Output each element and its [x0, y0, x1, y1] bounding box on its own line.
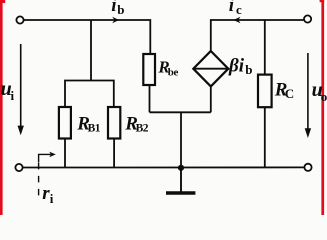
wire: R_B2 bottom lead — [113, 139, 115, 168]
r_i arrow (bent, pointing right) — [39, 152, 56, 163]
ground — [166, 168, 195, 193]
node: junction dot — [178, 165, 184, 171]
svg-text:βi: βi — [228, 55, 245, 76]
u_o arrow (down) — [305, 53, 311, 138]
wire: R_C top lead — [264, 20, 266, 75]
u_i arrow (down) — [18, 44, 24, 135]
wire: drop from emitter connector to ground node — [180, 112, 182, 167]
wire: bottom rail — [23, 166, 305, 168]
terminal: top-right — [304, 15, 311, 22]
wire: bracket over R_B1 / R_B2 — [65, 81, 114, 108]
wire: diamond bottom lead — [210, 86, 212, 112]
svg-text:b: b — [245, 62, 252, 77]
wire: R_B1 bottom lead — [64, 139, 66, 168]
svg-text:B1: B1 — [88, 123, 101, 135]
dependent current source βi_b (diamond) — [193, 51, 228, 86]
svg-text:be: be — [168, 66, 179, 78]
wire: junction drop from top rail to base bracket — [90, 20, 92, 81]
svg-text:c: c — [236, 2, 242, 17]
terminal: bottom-left — [15, 164, 22, 171]
svg-text:i: i — [50, 191, 54, 206]
r_i dashed line — [38, 163, 40, 200]
wire: i_b arrowhead on top-left rail — [112, 17, 119, 24]
svg-text:i: i — [11, 88, 15, 103]
resistor R_B1 — [59, 107, 71, 139]
red scan border right — [320, 0, 325, 215]
svg-text:B2: B2 — [136, 123, 149, 135]
red scan border left — [0, 0, 5, 215]
resistor R_be — [143, 54, 155, 85]
svg-text:C: C — [285, 86, 294, 101]
svg-text:b: b — [117, 2, 124, 17]
wire: emitter connector (R_be bottom to source bottom) — [150, 111, 211, 113]
wire: diamond top lead and top-right rail — [211, 20, 304, 51]
svg-text:i: i — [229, 0, 235, 16]
wire: top-left rail with corner down to R_be — [24, 20, 151, 54]
wire: R_be bottom lead — [149, 85, 151, 112]
svg-text:o: o — [321, 89, 327, 104]
wire: R_C bottom lead — [264, 107, 266, 167]
wire: i_c arrowhead (pointing left) — [233, 17, 240, 24]
terminal: bottom-right — [304, 164, 311, 171]
resistor R_C — [258, 75, 272, 108]
terminal: top-left — [16, 16, 23, 23]
resistor R_B2 — [108, 107, 120, 139]
